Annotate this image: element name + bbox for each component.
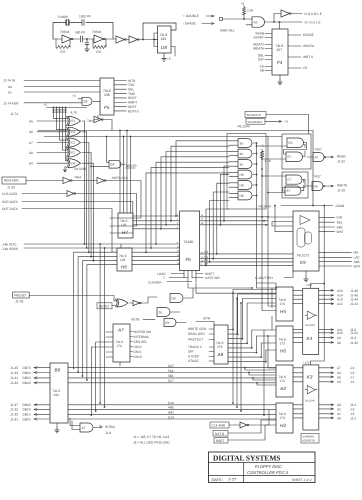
wire staircase right 1 <box>224 166 229 221</box>
wire latch1 to A7 <box>307 156 313 158</box>
wire bus D47 <box>68 367 276 369</box>
junction <box>256 184 258 186</box>
wire H7-F6 3 <box>133 224 180 226</box>
svg-text:PRESET: PRESET <box>14 294 27 298</box>
svg-text:SPARES W: SPARES W <box>247 113 262 117</box>
wire stub erase <box>202 23 214 25</box>
wire F4 out WRT S <box>288 56 301 58</box>
K3 triangle symbol <box>305 386 317 394</box>
junction <box>242 338 244 340</box>
junction <box>99 402 101 404</box>
svg-text:J1-35: J1-35 <box>10 408 18 412</box>
wire A8-H6 2 <box>228 336 276 353</box>
svg-text:J1-74 IN: J1-74 IN <box>3 79 16 83</box>
wire bus AB1 <box>68 413 276 415</box>
wire mesh into H5 <box>257 283 277 290</box>
svg-text:J1-45: J1-45 <box>10 366 18 370</box>
junction <box>323 283 325 285</box>
wire A8 in A STEP <box>209 356 214 358</box>
wire DB3X in <box>34 404 50 406</box>
svg-text:173: 173 <box>280 302 286 306</box>
svg-text:K3: K3 <box>307 375 313 380</box>
svg-text:B6: B6 <box>55 368 61 373</box>
wire A5 gate out <box>82 120 85 122</box>
junction <box>56 107 58 109</box>
svg-text:AB1: AB1 <box>168 411 174 415</box>
svg-text:74LS240: 74LS240 <box>305 400 316 403</box>
wire latch2 cross b <box>302 180 304 191</box>
junction <box>53 107 55 109</box>
wire H5-K4 295.2 <box>293 294 303 296</box>
junction <box>263 220 265 222</box>
gate E1 r3 <box>67 138 81 147</box>
wire pullup 5 <box>66 108 69 161</box>
svg-text:A STEP: A STEP <box>188 355 199 359</box>
wire A9 gate out <box>82 162 93 164</box>
osc wire b <box>83 38 95 40</box>
junction <box>261 168 263 170</box>
ground B6 <box>55 427 59 433</box>
svg-text:J1-33: J1-33 <box>10 413 18 417</box>
wire ladder A6 down <box>86 132 88 248</box>
wire bus 44B <box>68 408 276 410</box>
wire E3 out <box>94 120 112 131</box>
junction <box>248 372 250 374</box>
wire A8 in STAGE <box>209 360 214 362</box>
wire DB5X in <box>34 377 50 379</box>
wire CLK b <box>248 410 269 425</box>
resistor R4 1.1K <box>261 151 264 158</box>
svg-text:J1-41: J1-41 <box>10 376 18 380</box>
wire F4 out WDATA <box>288 45 301 47</box>
wire A8-H6 1 <box>228 330 276 348</box>
wire DATB <box>228 420 276 433</box>
arrowhead <box>331 332 334 334</box>
wire rail2 <box>44 137 268 218</box>
svg-text:157: 157 <box>277 48 283 52</box>
resistor pack 4.7K <box>52 110 54 112</box>
wire ATR <box>196 322 214 326</box>
wire out A1 <box>319 413 334 415</box>
wire A8-H6 3 <box>228 343 276 357</box>
gatecol 2 <box>238 149 252 158</box>
svg-text:DB5X: DB5X <box>23 376 32 380</box>
arrowhead <box>331 381 334 383</box>
junction <box>256 174 258 176</box>
svg-text:F4: F4 <box>277 60 283 65</box>
wire D8b out <box>184 288 194 298</box>
svg-text:WDATA: WDATA <box>303 44 315 48</box>
svg-text:DAT B: DAT B <box>215 432 224 436</box>
osc wire in <box>53 38 62 40</box>
svg-text:DIGITAL SYSTEMS: DIGITAL SYSTEMS <box>213 453 280 462</box>
net label RSET <box>214 438 228 444</box>
svg-text:A7: A7 <box>315 155 319 159</box>
junction <box>273 21 275 23</box>
svg-text:44B: 44B <box>168 406 174 410</box>
wire F4 in pair 1 <box>265 34 272 38</box>
arrowhead <box>331 303 334 305</box>
wire rail2 down <box>268 217 276 306</box>
svg-text:A7: A7 <box>82 426 86 430</box>
wire F6-K9 8A <box>200 261 293 263</box>
svg-text:LOAD: LOAD <box>157 272 166 276</box>
wire ladder A9 down <box>92 163 94 261</box>
wire F6 right 2 <box>200 220 268 222</box>
svg-text:DEN SEL: DEN SEL <box>134 340 148 344</box>
gatecol 6 <box>238 191 252 200</box>
svg-text:CLR DATA: CLR DATA <box>2 192 18 196</box>
wire D8 feedback <box>143 23 176 40</box>
svg-text:A1: A1 <box>8 91 12 95</box>
svg-text:244: 244 <box>54 393 60 397</box>
junction <box>252 377 254 379</box>
wire spare 1 <box>266 115 309 135</box>
wire rail INTC <box>24 243 180 245</box>
wire A3-K3 376.9 <box>293 376 303 378</box>
svg-text:WRITE: WRITE <box>337 184 347 188</box>
wire F6 right 1 <box>200 216 268 218</box>
svg-text:J1-32: J1-32 <box>337 160 345 164</box>
wire A3-K3 372.8 <box>293 372 303 374</box>
inverter U1D <box>129 36 138 43</box>
wire out A12 <box>319 303 334 305</box>
svg-text:RDPTS: RDPTS <box>128 109 139 113</box>
wire F5 bottom pin <box>97 115 99 120</box>
wire staircase left 3 <box>166 152 229 225</box>
wire stub double <box>206 15 214 17</box>
gate E5 <box>116 299 129 307</box>
junction <box>236 298 238 300</box>
svg-text:7404: 7404 <box>74 176 81 180</box>
wire F4 in pair 4 <box>265 67 272 71</box>
title block dividers <box>209 463 316 483</box>
svg-text:STAGE: STAGE <box>188 359 199 363</box>
shift register F6 box <box>180 211 200 271</box>
svg-text:E7: E7 <box>288 155 292 159</box>
wire F5 out WRPT <box>114 101 127 103</box>
wire D8 out low <box>171 47 175 57</box>
resistor R1 <box>56 46 70 49</box>
svg-text:DS#3: DS#3 <box>134 355 142 359</box>
svg-text:A2: A2 <box>254 20 258 24</box>
svg-text:A3: A3 <box>279 386 286 391</box>
gate E9 <box>287 138 304 148</box>
wire gatecol out 3 <box>253 163 257 165</box>
wire out A0 <box>319 417 334 419</box>
K4 triangle symbol <box>305 311 317 319</box>
inverter U1B <box>94 35 104 43</box>
svg-text:A6: A6 <box>29 130 33 134</box>
svg-text:5B1: 5B1 <box>168 374 174 378</box>
wire pullup 3 <box>60 108 69 141</box>
wire H5-K4 290.4 <box>293 289 303 291</box>
buffer K4 box <box>303 288 319 354</box>
wire mesh vert 4 <box>271 288 273 330</box>
wire dtop to H4 3 <box>253 378 276 380</box>
gate E1 r4 <box>67 148 81 157</box>
net label REM ADR <box>2 177 26 184</box>
junction <box>263 414 265 416</box>
svg-text:680 PF: 680 PF <box>75 31 85 35</box>
svg-text:174: 174 <box>117 344 123 348</box>
svg-text:H5: H5 <box>280 309 286 314</box>
wire out A2 <box>319 408 334 410</box>
svg-text:5.0688: 5.0688 <box>58 15 68 19</box>
svg-text:H6: H6 <box>280 349 286 354</box>
wire dtop to H4 2 <box>249 373 276 376</box>
wire DB0X in <box>34 418 50 420</box>
gate A2 <box>252 17 264 27</box>
wire rail tap H7 1 <box>119 131 121 214</box>
crystal Y1 feedback top wire <box>53 23 113 40</box>
wire SINGLE <box>265 21 302 23</box>
junction <box>267 192 269 194</box>
wire out A7 <box>319 367 334 369</box>
svg-text:J1-37: J1-37 <box>10 403 18 407</box>
wire K9 out top WST <box>319 231 335 233</box>
gate D8b <box>170 294 183 303</box>
svg-text:D10: D10 <box>168 401 174 405</box>
svg-text:RESTR: RESTR <box>126 164 138 168</box>
wire H2-K3 413.8 <box>293 413 303 415</box>
wire staircase left 1 <box>176 141 229 216</box>
junction <box>82 375 84 377</box>
resistor R3 <box>243 8 246 16</box>
gate E4 <box>109 160 121 168</box>
wire rail tap H6 1 <box>120 244 122 248</box>
wire out A8 <box>319 341 334 343</box>
svg-text:J1-7B: J1-7B <box>15 300 23 304</box>
junction <box>77 371 79 373</box>
wire K9 out top S4B <box>319 226 335 228</box>
capacitor C1 1000PF <box>82 20 84 26</box>
wire pullup 2 <box>57 108 69 130</box>
gatecol 3 <box>238 160 252 169</box>
svg-text:D8: D8 <box>161 45 167 50</box>
wire H6-K4 329.6 <box>293 329 303 331</box>
K9 inner latch symbols <box>297 228 305 247</box>
junction <box>256 142 258 144</box>
wire SCRDATA <box>22 202 133 234</box>
osc wire d <box>126 39 129 41</box>
svg-text:7-77: 7-77 <box>228 477 237 482</box>
wire F6 right 3 <box>200 224 268 226</box>
junction <box>261 175 263 177</box>
wire staircase left 5 <box>156 162 229 244</box>
svg-text:E9: E9 <box>289 141 293 145</box>
svg-text:E7: E7 <box>287 189 291 193</box>
wire OUTDATA <box>22 209 117 253</box>
inverter U1A <box>62 35 72 43</box>
junction <box>236 406 238 408</box>
arrow down marker <box>64 167 67 173</box>
wire F6-K9 5A <box>200 258 293 260</box>
svg-text:J1-30: J1-30 <box>7 186 15 190</box>
wire A7 in 4 <box>106 346 113 348</box>
svg-text:DB6X: DB6X <box>23 371 32 375</box>
svg-text:C-ABVTRSY: C-ABVTRSY <box>255 276 274 280</box>
crystal Y1 <box>64 20 70 26</box>
title block outer box <box>209 452 316 483</box>
wire mesh vert 1 <box>232 293 234 403</box>
junction <box>243 18 245 20</box>
wire bus 5C7 <box>68 382 276 384</box>
svg-text:3a: 3a <box>240 141 244 145</box>
svg-text:CLK 4MB: CLK 4MB <box>212 424 226 428</box>
svg-text:74LS240: 74LS240 <box>305 324 316 327</box>
arrowhead <box>331 408 334 410</box>
junction <box>205 265 207 267</box>
svg-text:E1: E1 <box>71 119 75 123</box>
svg-text:H9: H9 <box>314 184 318 188</box>
wire latch1 cross b <box>303 145 306 157</box>
wire A8-H5 4 <box>228 303 276 343</box>
wire K9 out mid LAC <box>319 256 352 258</box>
register H6 74LS173 <box>276 326 293 361</box>
wire staircase right 5 <box>210 201 229 262</box>
wire rail tap H7 2 <box>123 137 125 214</box>
wire A7 in 5 <box>106 351 113 353</box>
wire DB7X in <box>34 367 50 369</box>
svg-text:+12V: +12V <box>306 283 313 287</box>
junction <box>126 130 128 132</box>
wire out A5 <box>319 376 334 378</box>
wire gatecol in 6 <box>229 193 238 197</box>
wire D8 pin mid <box>154 39 158 41</box>
junction <box>90 256 92 258</box>
svg-text:DB2X: DB2X <box>23 408 32 412</box>
junction GN4B rail <box>323 205 325 207</box>
junction <box>232 292 234 294</box>
svg-text:K9: K9 <box>300 260 306 265</box>
buffer D2a <box>63 177 71 183</box>
svg-text:CLK/SER: CLK/SER <box>148 281 162 285</box>
wire A8 in WRITE GEN <box>209 328 214 330</box>
wire DOUBLE <box>291 13 302 15</box>
junction <box>265 224 267 226</box>
svg-text:193: 193 <box>161 37 167 41</box>
wire dtop to H4 1 <box>245 368 276 370</box>
wire B6 gnd stub <box>56 423 58 427</box>
wire out A9 <box>319 337 334 339</box>
wire rail tap H6 2 <box>124 247 126 249</box>
svg-text:+5: +5 <box>43 103 47 107</box>
svg-text:H7: H7 <box>122 230 128 235</box>
junction <box>142 39 144 41</box>
svg-text:DB0X: DB0X <box>23 417 32 421</box>
wire gatecol in 1 <box>229 141 238 145</box>
svg-text:74LS244: 74LS244 <box>258 205 271 209</box>
svg-text:S I N G L E: S I N G L E <box>305 20 321 24</box>
junction <box>209 261 211 263</box>
svg-text:270: 270 <box>60 50 66 54</box>
wire F4 in pair 2 <box>265 45 272 49</box>
wire to gates <box>141 297 157 303</box>
wire A8 in DIR <box>209 351 214 353</box>
svg-text:7437: 7437 <box>315 148 322 152</box>
svg-text:J-6: J-6 <box>350 380 355 384</box>
wire rail tap H7 4 <box>130 137 132 214</box>
junction <box>279 21 281 23</box>
wire PRESET <box>29 296 117 302</box>
wire staircase left 7 <box>146 173 229 252</box>
svg-text:J1-74: J1-74 <box>10 112 18 116</box>
svg-text:270: 270 <box>96 50 102 54</box>
svg-text:193: 193 <box>120 258 126 262</box>
junction <box>84 243 86 245</box>
wire A6 gate out <box>82 131 87 133</box>
wire K9 in 2 <box>272 222 293 227</box>
wire 1.1K legs <box>261 149 263 169</box>
wire to D8 <box>139 39 158 41</box>
wire rail SDRS <box>24 247 180 249</box>
svg-text:56A: 56A <box>168 369 175 373</box>
svg-text:SPARE2ER: SPARE2ER <box>248 120 263 124</box>
wire pullup rail <box>47 107 87 109</box>
svg-text:J1-43: J1-43 <box>10 371 18 375</box>
svg-text:MOTOR ON: MOTOR ON <box>134 330 152 334</box>
svg-text:SCR DATA: SCR DATA <box>2 200 19 204</box>
svg-text:INTERNAL: INTERNAL <box>134 335 150 339</box>
wire DB4X in <box>34 382 50 384</box>
wire H6-K4 342.4 <box>293 341 303 343</box>
arrowhead <box>331 294 334 296</box>
wire bundle 3 <box>83 261 118 376</box>
arrowhead <box>331 367 334 369</box>
wire A8 gate out <box>82 152 91 154</box>
gate A7nand <box>313 153 324 162</box>
wire mesh vert 2 <box>236 299 238 408</box>
wire A7 gate out <box>82 142 89 144</box>
net label SUMMED ADDRESS <box>301 434 319 444</box>
wire bundle 4 <box>87 265 117 380</box>
wire A7b out <box>94 427 103 429</box>
svg-text:D47: D47 <box>168 364 174 368</box>
svg-text:GATE WR: GATE WR <box>205 276 220 280</box>
svg-text:PROTECT: PROTECT <box>188 338 203 342</box>
svg-text:J1-42: J1-42 <box>350 331 358 335</box>
junction <box>256 153 258 155</box>
gate H9 <box>312 182 323 191</box>
wire H2-K3 404.8 <box>293 404 303 406</box>
wire bus D10 <box>68 404 276 406</box>
wire A5 in <box>37 120 68 122</box>
buffer D2b <box>97 177 105 183</box>
junction <box>90 414 92 416</box>
junction <box>267 216 269 218</box>
wire gateout down <box>257 210 277 288</box>
wire ladder A8 down <box>90 153 92 257</box>
wire F6-K9 D4 <box>200 253 293 255</box>
junction <box>99 243 101 245</box>
svg-text:A5: A5 <box>337 375 341 379</box>
junction <box>246 342 248 344</box>
wire bundle 6 <box>104 248 106 407</box>
svg-text:DB4X: DB4X <box>23 381 32 385</box>
RESTR underline <box>126 167 136 169</box>
wire A8-H5 2 <box>228 294 276 334</box>
junction <box>88 251 90 253</box>
wire F6-K9 3A <box>200 264 293 266</box>
svg-text:J1-2: J1-2 <box>350 416 356 420</box>
wire A9 in <box>37 162 68 164</box>
connector pad J1 <box>220 18 223 21</box>
wire A7 in 1 <box>106 331 113 333</box>
wire bus 5B1 <box>68 377 276 379</box>
arrow <box>212 15 215 17</box>
wire A8 in READ GEN <box>209 333 214 335</box>
